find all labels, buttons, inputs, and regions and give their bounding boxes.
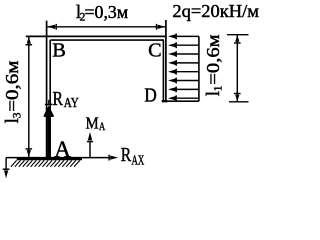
dimension line l2 with arrows <box>47 24 165 30</box>
load arrow 8 <box>168 95 199 101</box>
svg-text:2q=20кН/м: 2q=20кН/м <box>172 1 259 21</box>
frame left member AB inner line <box>49 40 51 157</box>
svg-text:A: A <box>54 137 71 162</box>
svg-text:A: A <box>99 121 106 133</box>
load arrow 1 <box>168 34 199 40</box>
svg-text:B: B <box>52 39 66 61</box>
svg-text:AY: AY <box>64 95 79 110</box>
load arrow 6 <box>168 78 199 84</box>
svg-text:=0,3м: =0,3м <box>85 2 129 22</box>
distributed load tail line <box>198 36 200 101</box>
svg-text:3: 3 <box>12 112 24 118</box>
frame top beam BC outer line (extended left as l3 extension) <box>26 35 167 37</box>
label l3=0,6m (rotated) <box>2 61 24 124</box>
svg-text:D: D <box>144 85 156 107</box>
dimension line l3 with arrows <box>26 37 33 158</box>
svg-text:M: M <box>86 113 99 132</box>
label l2=0,3m <box>76 2 128 24</box>
label RAY <box>53 88 80 110</box>
dimension line l1 with arrows <box>234 35 241 102</box>
small down arrow at left end of ground <box>3 158 10 179</box>
support hatching <box>11 160 80 166</box>
load arrow 2 <box>168 42 199 48</box>
support bar (thick) <box>17 157 82 160</box>
label l1=0,6m (rotated) <box>203 34 225 96</box>
svg-text:R: R <box>121 144 132 166</box>
svg-text:C: C <box>148 40 162 62</box>
moment arrow MA <box>87 132 93 158</box>
svg-text:R: R <box>53 88 64 110</box>
load arrow 5 <box>168 69 199 75</box>
reaction arrow RAX head <box>109 155 118 161</box>
label RAX <box>121 144 145 167</box>
ground line <box>6 157 111 159</box>
distributed load bottom edge <box>167 100 199 102</box>
frame left member AB outer line (extended up as l2 tick) <box>46 21 48 158</box>
dimension l1 bottom tick <box>229 101 249 103</box>
svg-text:=0,6м: =0,6м <box>2 61 22 112</box>
member CD bottom closure at D <box>162 100 168 102</box>
frame top beam BC inner line <box>50 39 164 41</box>
reaction arrow RAY (thick, up along member) <box>44 100 54 158</box>
label MA <box>86 113 106 133</box>
load arrow 3 <box>168 51 199 57</box>
load arrow 7 <box>168 87 199 93</box>
load arrow 4 <box>168 60 199 66</box>
frame right member CD inner line <box>162 40 164 101</box>
svg-text:1: 1 <box>212 85 224 91</box>
dimension l1 top tick <box>227 34 249 36</box>
svg-text:AX: AX <box>132 153 145 168</box>
svg-text:=0,6м: =0,6м <box>203 34 223 84</box>
frame right member CD outer line (extended up as l2 tick) <box>165 20 167 101</box>
